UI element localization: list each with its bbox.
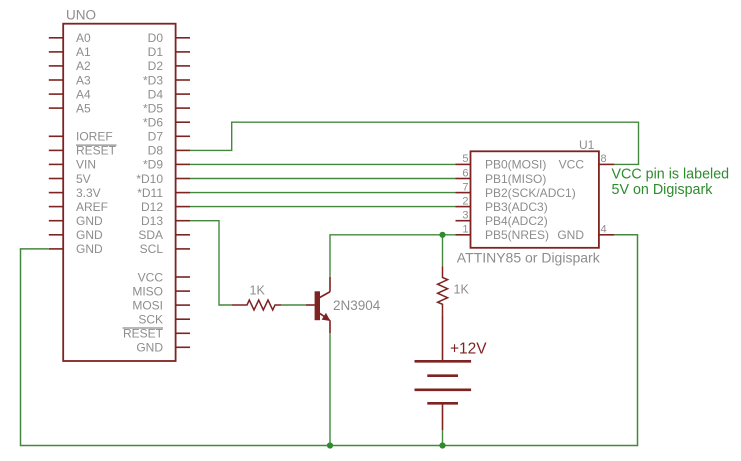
svg-text:*D5: *D5 [143, 101, 163, 115]
U1 left pin 1 PB5(NRES) [456, 224, 550, 243]
svg-text:SCK: SCK [138, 313, 163, 327]
UNO right pin D1 (row 1) [148, 45, 190, 59]
svg-text:1K: 1K [250, 284, 266, 298]
UNO left pin IOREF (row 7) [49, 130, 113, 144]
svg-text:PB4(ADC2): PB4(ADC2) [485, 214, 548, 228]
UNO left pin VIN (row 9) [49, 158, 96, 172]
transistor Q1 emitter with arrow [320, 313, 331, 333]
wire net D9 to U1 pin 5 [190, 163, 456, 165]
svg-text:D0: D0 [148, 31, 164, 45]
UNO left pin A2 (row 2) [49, 59, 91, 73]
UNO right pin SDA (row 14) [138, 228, 190, 242]
UNO right pin *D3 (row 3) [143, 73, 190, 87]
svg-text:VCC: VCC [138, 270, 164, 284]
svg-text:VIN: VIN [76, 158, 96, 172]
svg-text:AREF: AREF [76, 200, 108, 214]
svg-text:UNO: UNO [66, 8, 96, 23]
svg-text:5V: 5V [76, 172, 91, 186]
UNO right pin D2 (row 2) [148, 59, 190, 73]
transistor Q1 2N3904 body bar [315, 291, 320, 320]
svg-text:*D10: *D10 [136, 172, 163, 186]
svg-text:6: 6 [462, 167, 468, 179]
UNO left pin GND (row 15) [49, 242, 103, 256]
svg-text:5V on Digispark: 5V on Digispark [612, 182, 714, 198]
wire Q1 collector up to U1 pin 1, junction with R2 [330, 235, 456, 277]
wire Q1 emitter down to ground rail [329, 333, 331, 445]
wire net D10 to U1 pin 6 [190, 178, 456, 180]
UNO right pin D8 (row 8) [148, 144, 190, 158]
svg-text:PB3(ADC3): PB3(ADC3) [485, 200, 548, 214]
UNO right pin GND (row 22) [136, 341, 190, 355]
svg-text:A1: A1 [76, 45, 91, 59]
wire net D13 down to resistor R1 [190, 221, 232, 305]
U1 right pin 8 VCC [559, 153, 615, 172]
svg-text:D1: D1 [148, 45, 164, 59]
svg-text:A2: A2 [76, 59, 91, 73]
UNO right pin *D5 (row 5) [143, 101, 190, 115]
svg-text:3.3V: 3.3V [76, 186, 101, 200]
svg-text:U1: U1 [579, 138, 595, 152]
svg-text:SDA: SDA [138, 228, 163, 242]
U1 left pin 2 PB3(ADC3) [456, 195, 548, 214]
UNO right pin *D9 (row 9) [143, 158, 190, 172]
UNO right pin MOSI (row 19) [132, 298, 190, 312]
wire net D11 to U1 pin 7 [190, 192, 456, 194]
svg-text:D13: D13 [141, 214, 163, 228]
UNO right pin D4 (row 4) [148, 87, 190, 101]
svg-text:*D11: *D11 [137, 186, 163, 200]
battery BT1 negative lead [442, 403, 444, 430]
svg-text:GND: GND [76, 214, 103, 228]
UNO left pin GND (row 14) [49, 228, 103, 242]
UNO right pin *D10 (row 10) [136, 172, 190, 186]
svg-text:*D9: *D9 [143, 158, 163, 172]
svg-text:D7: D7 [148, 130, 164, 144]
svg-text:GND: GND [557, 228, 584, 242]
svg-text:4: 4 [601, 224, 607, 236]
U1 right pin 4 GND [557, 224, 614, 243]
wire net D8 to U1 pin 8 VCC (up and over the top) [190, 122, 639, 164]
UNO right pin RESET (row 21) [123, 327, 191, 341]
svg-text:MISO: MISO [132, 284, 163, 298]
svg-text:5: 5 [462, 153, 468, 165]
junction: U1 pin1 / R2 / Q1 collector node [439, 232, 445, 238]
svg-text:RESET: RESET [123, 327, 164, 341]
junction: battery negative to ground rail [439, 442, 445, 448]
UNO right pin D12 (row 12) [141, 200, 190, 214]
battery BT1 12V positive lead [442, 316, 444, 362]
UNO right pin D7 (row 7) [148, 130, 190, 144]
svg-text:2: 2 [462, 195, 468, 207]
battery plate short (bottom, -) [427, 402, 458, 405]
IC U1 ATTINY85 body [471, 151, 599, 248]
svg-text:D2: D2 [148, 59, 164, 73]
svg-text:D12: D12 [141, 200, 163, 214]
UNO left pin A1 (row 1) [49, 45, 91, 59]
UNO right pin D0 (row 0) [148, 31, 190, 45]
IC UNO (Arduino) body [63, 24, 175, 361]
wire ground net: UNO GND, left rail, bottom rail, right rail up to U1 pin 4 [21, 235, 638, 446]
svg-text:D8: D8 [148, 144, 164, 158]
svg-text:VCC pin is labeled: VCC pin is labeled [612, 167, 730, 183]
UNO left pin 3.3V (row 11) [49, 186, 101, 200]
UNO right pin SCK (row 20) [138, 313, 190, 327]
UNO right pin D13 (row 13) [141, 214, 190, 228]
svg-text:SCL: SCL [140, 242, 164, 256]
UNO right pin *D6 (row 6) [143, 116, 190, 130]
svg-text:VCC: VCC [559, 158, 585, 172]
svg-text:7: 7 [462, 181, 468, 193]
UNO right pin *D11 (row 11) [137, 186, 190, 200]
svg-text:1: 1 [462, 224, 468, 236]
junction: emitter to ground rail [327, 442, 333, 448]
svg-text:PB5(NRES): PB5(NRES) [485, 228, 549, 242]
svg-text:1K: 1K [454, 283, 470, 297]
svg-text:+12V: +12V [450, 341, 487, 358]
UNO left pin RESET (row 8) [49, 144, 117, 158]
resistor R2 1K (to +12V) [438, 266, 448, 315]
svg-text:ATTINY85 or Digispark: ATTINY85 or Digispark [457, 250, 601, 266]
UNO left pin A3 (row 3) [49, 73, 91, 87]
svg-text:IOREF: IOREF [76, 130, 113, 144]
svg-text:8: 8 [601, 153, 607, 165]
svg-text:GND: GND [76, 228, 103, 242]
svg-text:A4: A4 [76, 87, 91, 101]
svg-text:GND: GND [136, 341, 163, 355]
UNO left pin AREF (row 12) [49, 200, 108, 214]
UNO left pin A0 (row 0) [49, 31, 91, 45]
UNO left pin A4 (row 4) [49, 87, 91, 101]
U1 left pin 7 PB2(SCK/ADC1) [456, 181, 576, 200]
U1 left pin 3 PB4(ADC2) [456, 210, 548, 229]
svg-text:3: 3 [462, 210, 468, 222]
battery plate long (top, +) [415, 360, 472, 363]
svg-text:GND: GND [76, 242, 103, 256]
battery plate long [415, 388, 472, 391]
wire node down to R2 top [442, 235, 444, 266]
svg-text:PB2(SCK/ADC1): PB2(SCK/ADC1) [485, 186, 576, 200]
wire battery negative to ground rail [442, 430, 444, 445]
wire R1 to Q1 base [281, 304, 306, 306]
UNO left pin A5 (row 5) [49, 101, 91, 115]
battery plate short [427, 374, 458, 377]
note text: VCC pin is labeled 5V on Digispark [612, 167, 730, 199]
UNO left pin 5V (row 10) [49, 172, 91, 186]
svg-text:D4: D4 [148, 87, 164, 101]
transistor Q1 2N3904 base lead [306, 304, 315, 306]
svg-text:*D6: *D6 [143, 116, 163, 130]
U1 left pin 6 PB1(MISO) [456, 167, 547, 186]
resistor R1 1K (base resistor) [232, 300, 281, 310]
svg-text:2N3904: 2N3904 [333, 298, 381, 313]
UNO left pin GND (row 13) [49, 214, 103, 228]
svg-text:*D3: *D3 [143, 73, 163, 87]
svg-text:A0: A0 [76, 31, 91, 45]
svg-text:PB1(MISO): PB1(MISO) [485, 172, 546, 186]
svg-text:A5: A5 [76, 101, 91, 115]
UNO right pin VCC (row 17) [138, 270, 190, 284]
svg-text:PB0(MOSI): PB0(MOSI) [485, 158, 546, 172]
wire net D12 to U1 pin 2 [190, 206, 456, 208]
UNO right pin SCL (row 15) [140, 242, 190, 256]
svg-text:MOSI: MOSI [132, 298, 163, 312]
transistor Q1 collector [320, 277, 331, 298]
svg-text:A3: A3 [76, 73, 91, 87]
UNO right pin MISO (row 18) [132, 284, 190, 298]
U1 left pin 5 PB0(MOSI) [456, 153, 547, 172]
svg-text:RESET: RESET [76, 144, 117, 158]
